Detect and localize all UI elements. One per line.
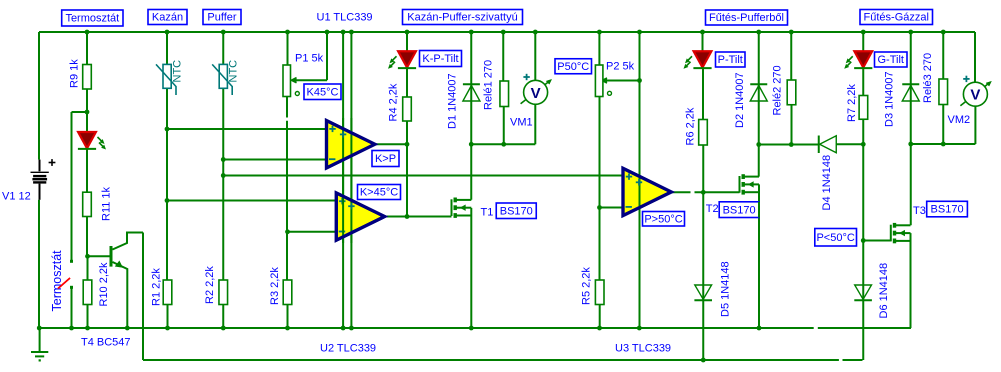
svg-text:T4 BC547: T4 BC547 [81,336,131,348]
svg-text:Kazán: Kazán [152,12,183,24]
svg-text:R9 1k: R9 1k [69,59,81,88]
svg-text:D2 1N4007: D2 1N4007 [734,72,746,128]
svg-text:G-Tilt: G-Tilt [878,54,904,66]
svg-text:P>50°C: P>50°C [644,213,682,225]
svg-text:U1 TLC339: U1 TLC339 [317,12,373,24]
svg-text:K>45°C: K>45°C [360,187,398,199]
svg-text:R4 2,2k: R4 2,2k [388,83,400,121]
svg-text:Kazán-Puffer-szivattyú: Kazán-Puffer-szivattyú [407,12,517,24]
svg-text:P50°C: P50°C [557,61,589,73]
svg-text:R10 2,2k: R10 2,2k [98,262,110,307]
svg-text:Relé1 270: Relé1 270 [483,60,495,110]
svg-text:T3: T3 [913,205,926,217]
svg-text:R2 2,2k: R2 2,2k [204,266,216,304]
svg-text:V1 12: V1 12 [2,191,31,203]
svg-text:D4 1N4148: D4 1N4148 [821,155,833,211]
svg-text:VM1: VM1 [510,117,533,129]
svg-text:R11 1k: R11 1k [101,186,113,221]
svg-text:Relé3 270: Relé3 270 [922,53,934,103]
svg-text:K45°C: K45°C [307,86,339,98]
svg-text:Termosztát: Termosztát [65,13,119,25]
svg-text:D6 1N4148: D6 1N4148 [878,263,890,319]
svg-text:BS170: BS170 [931,204,964,216]
svg-text:Relé2 270: Relé2 270 [772,65,784,115]
svg-text:K-P-Tilt: K-P-Tilt [422,53,458,65]
svg-text:V: V [970,87,980,104]
svg-text:K>P: K>P [375,153,396,165]
svg-text:P<50°C: P<50°C [816,232,854,244]
svg-text:BS170: BS170 [500,205,533,217]
svg-text:Termosztát: Termosztát [50,250,64,312]
svg-text:VM2: VM2 [948,114,971,126]
svg-text:D3 1N4007: D3 1N4007 [884,71,896,127]
svg-text:R5 2,2k: R5 2,2k [581,267,593,305]
svg-text:P-Tilt: P-Tilt [718,54,743,66]
svg-text:NTC: NTC [228,60,240,83]
svg-text:U3 TLC339: U3 TLC339 [615,343,671,355]
svg-text:R7 2,2k: R7 2,2k [846,84,858,122]
svg-text:BS170: BS170 [723,204,756,216]
svg-text:NTC: NTC [172,60,184,83]
svg-text:Fűtés-Pufferből: Fűtés-Pufferből [709,12,784,24]
svg-text:U2 TLC339: U2 TLC339 [320,343,376,355]
svg-text:R6 2,2k: R6 2,2k [685,107,697,145]
svg-text:D1 1N4007: D1 1N4007 [447,73,459,129]
svg-text:Fűtés-Gázzal: Fűtés-Gázzal [864,12,929,24]
svg-text:P2 5k: P2 5k [606,61,635,73]
svg-text:D5 1N4148: D5 1N4148 [720,261,732,317]
svg-text:T1: T1 [481,207,494,219]
svg-text:V: V [531,85,541,102]
svg-text:R3 2,2k: R3 2,2k [269,267,281,305]
svg-text:P1 5k: P1 5k [295,53,324,65]
svg-text:R1 2,2k: R1 2,2k [151,268,163,306]
svg-text:T2: T2 [706,203,719,215]
svg-text:Puffer: Puffer [207,12,236,24]
